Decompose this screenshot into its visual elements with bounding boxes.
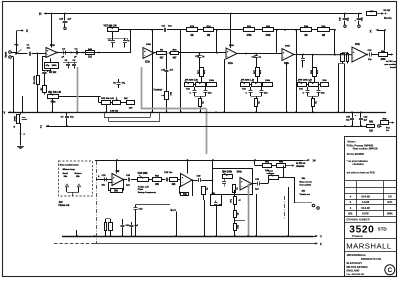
svg-text:Gain: Gain bbox=[51, 101, 57, 103]
svg-text:4-8-88: 4-8-88 bbox=[362, 201, 370, 204]
svg-text:470k: 470k bbox=[265, 34, 271, 37]
svg-text:VR7 10k LIN: VR7 10k LIN bbox=[104, 25, 117, 27]
svg-text:Return: Return bbox=[75, 172, 83, 175]
svg-text:22n: 22n bbox=[368, 59, 372, 61]
svg-text:Preamp: Preamp bbox=[352, 234, 363, 238]
svg-text:STD: STD bbox=[378, 227, 388, 232]
svg-text:IC2b: IC2b bbox=[355, 44, 361, 46]
svg-text:1M: 1M bbox=[322, 35, 325, 37]
svg-text:Pwr: Pwr bbox=[386, 128, 390, 130]
svg-text:-: - bbox=[283, 56, 284, 59]
svg-text:Treble cut: Treble cut bbox=[300, 193, 311, 196]
svg-text:to PR on: to PR on bbox=[296, 162, 306, 165]
svg-text:10n: 10n bbox=[27, 48, 31, 50]
svg-text:-: - bbox=[353, 57, 354, 60]
svg-text:clockwise: clockwise bbox=[353, 163, 365, 166]
svg-text:1M: 1M bbox=[304, 35, 307, 37]
svg-text:180k: 180k bbox=[52, 65, 58, 67]
svg-text:1M: 1M bbox=[190, 35, 193, 37]
svg-text:470R: 470R bbox=[13, 116, 16, 122]
svg-text:Z: Z bbox=[40, 125, 42, 129]
svg-text:Z: Z bbox=[320, 242, 322, 246]
svg-text:-: - bbox=[47, 54, 48, 57]
svg-text:10n: 10n bbox=[168, 26, 172, 28]
svg-text:rear socket: rear socket bbox=[384, 63, 396, 66]
svg-text:10n: 10n bbox=[183, 194, 188, 196]
svg-text:Pitch: Pitch bbox=[138, 188, 144, 191]
svg-text:R2 1W: R2 1W bbox=[384, 10, 392, 12]
svg-text:R5 470k: R5 470k bbox=[33, 75, 36, 84]
svg-text:Notes:-: Notes:- bbox=[348, 139, 357, 143]
svg-text:VR4 100k: VR4 100k bbox=[222, 171, 233, 174]
svg-text:1M: 1M bbox=[207, 35, 210, 37]
svg-text:Pre On: Pre On bbox=[384, 18, 392, 20]
svg-text:VR3 100k: VR3 100k bbox=[138, 173, 149, 175]
svg-text:-: - bbox=[182, 182, 183, 185]
svg-text:Rear sockets JMP61B: Rear sockets JMP61B bbox=[353, 147, 378, 150]
svg-text:board: board bbox=[390, 67, 397, 69]
svg-text:File: B50PRE.001: File: B50PRE.001 bbox=[347, 274, 366, 276]
svg-text:100k: 100k bbox=[209, 80, 215, 82]
svg-text:R27: R27 bbox=[254, 69, 256, 74]
svg-text:Input: Input bbox=[4, 52, 7, 58]
svg-text:Contour: Contour bbox=[154, 88, 163, 91]
svg-text:Y: Y bbox=[320, 235, 322, 239]
svg-text:BLETCHLEY: BLETCHLEY bbox=[347, 261, 363, 265]
svg-text:14: 14 bbox=[313, 159, 317, 163]
svg-text:Bass cut on: Bass cut on bbox=[300, 181, 313, 184]
svg-text:MARSHALL: MARSHALL bbox=[346, 241, 392, 250]
svg-text:ISS.: ISS. bbox=[348, 212, 353, 215]
svg-text:C: C bbox=[388, 267, 393, 274]
svg-text:to PS1 on: to PS1 on bbox=[386, 60, 397, 63]
svg-text:10-5-88: 10-5-88 bbox=[361, 195, 370, 198]
svg-text:-: - bbox=[113, 181, 114, 184]
svg-text:MILTON KEYNES: MILTON KEYNES bbox=[347, 265, 368, 269]
svg-text:100k: 100k bbox=[285, 45, 291, 47]
svg-text:All ICs MC4558: All ICs MC4558 bbox=[347, 153, 365, 156]
svg-text:C28 10n: C28 10n bbox=[164, 172, 173, 174]
svg-text:100k: 100k bbox=[146, 44, 152, 46]
svg-text:IC1b: IC1b bbox=[145, 62, 151, 64]
svg-text:-: - bbox=[144, 54, 145, 57]
svg-text:B+4: B+4 bbox=[171, 208, 177, 212]
svg-text:IC1a: IC1a bbox=[50, 45, 56, 47]
svg-text:R6 1k2: R6 1k2 bbox=[49, 72, 57, 74]
svg-text:IC2a: IC2a bbox=[228, 63, 234, 65]
svg-text:DRAWING NUMBER: DRAWING NUMBER bbox=[347, 219, 370, 222]
svg-text:-: - bbox=[227, 55, 228, 58]
svg-text:47p: 47p bbox=[46, 64, 50, 67]
svg-text:DATE: DATE bbox=[362, 212, 369, 215]
svg-text:DRN.: DRN. bbox=[387, 212, 393, 215]
svg-text:Sweep frequency: Sweep frequency bbox=[138, 192, 157, 194]
svg-text:foot switch: foot switch bbox=[300, 183, 312, 186]
svg-text:100k: 100k bbox=[265, 80, 271, 82]
svg-text:10Hz: 10Hz bbox=[237, 172, 243, 174]
svg-text:20n: 20n bbox=[102, 184, 106, 186]
svg-text:VR2 20k LIN: VR2 20k LIN bbox=[101, 98, 114, 100]
svg-text:Treble L.M: Treble L.M bbox=[138, 186, 149, 188]
svg-text:-: - bbox=[241, 185, 242, 188]
svg-text:chassis: chassis bbox=[296, 166, 305, 168]
svg-text:470k: 470k bbox=[246, 34, 252, 37]
svg-text:a-b refer to rivets on PCB: a-b refer to rivets on PCB bbox=[347, 172, 375, 175]
svg-text:ENGLAND: ENGLAND bbox=[347, 269, 360, 273]
svg-text:PRODUCTS LTD.: PRODUCTS LTD. bbox=[361, 257, 382, 261]
svg-text:Effects loop: Effects loop bbox=[63, 168, 76, 171]
svg-text:10-5-85: 10-5-85 bbox=[361, 207, 370, 210]
svg-text:Phase out: Phase out bbox=[59, 204, 70, 207]
svg-text:Send: Send bbox=[63, 173, 69, 175]
svg-text:Rear socket board: Rear socket board bbox=[60, 163, 79, 166]
svg-text:CP.: CP. bbox=[388, 195, 392, 198]
svg-text:100k: 100k bbox=[229, 45, 235, 47]
svg-text:M.D.: M.D. bbox=[387, 201, 393, 204]
svg-text:VR1 10k LIN: VR1 10k LIN bbox=[48, 92, 61, 94]
svg-text:JIM MARSHALL: JIM MARSHALL bbox=[347, 253, 367, 257]
